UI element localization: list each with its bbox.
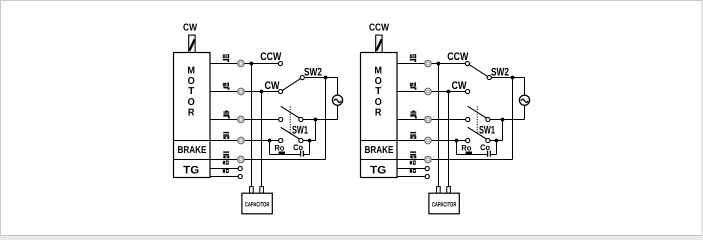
svg-text:CW: CW: [183, 22, 197, 33]
svg-text:CCW: CCW: [369, 22, 389, 33]
